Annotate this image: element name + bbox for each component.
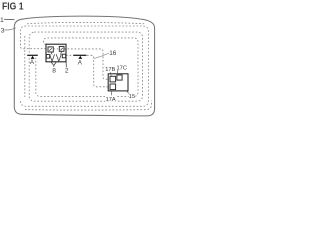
svg-text:2: 2 bbox=[65, 68, 69, 75]
svg-text:17A: 17A bbox=[106, 97, 116, 103]
svg-text:8: 8 bbox=[52, 68, 56, 75]
svg-text:3: 3 bbox=[1, 27, 5, 34]
svg-text:15: 15 bbox=[129, 94, 135, 100]
svg-text:1: 1 bbox=[0, 17, 4, 24]
svg-text:FIG 1: FIG 1 bbox=[2, 2, 24, 13]
svg-text:16: 16 bbox=[109, 50, 117, 57]
